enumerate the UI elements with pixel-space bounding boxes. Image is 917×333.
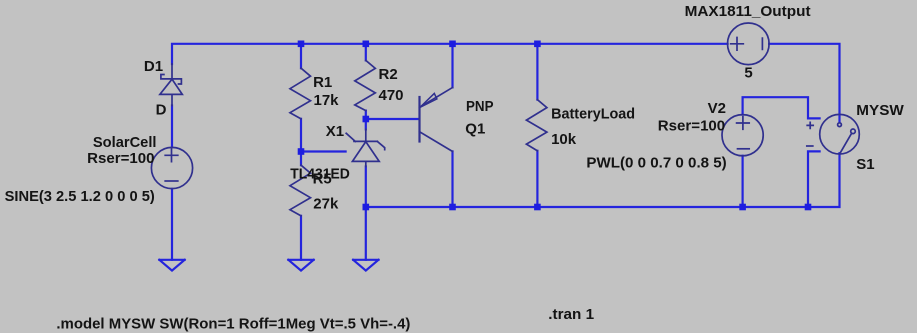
svg-text:Rser=100: Rser=100 xyxy=(87,150,154,167)
svg-text:V2: V2 xyxy=(708,100,726,117)
svg-text:BatteryLoad: BatteryLoad xyxy=(551,106,635,123)
svg-text:X1: X1 xyxy=(326,123,344,140)
svg-text:SINE(3 2.5 1.2 0 0 0 5): SINE(3 2.5 1.2 0 0 0 5) xyxy=(5,188,155,205)
svg-text:Q1: Q1 xyxy=(465,121,485,138)
svg-text:5: 5 xyxy=(744,64,752,81)
svg-text:Rser=100: Rser=100 xyxy=(658,117,725,134)
svg-text:.tran 1: .tran 1 xyxy=(548,306,594,323)
svg-text:PNP: PNP xyxy=(466,98,494,115)
svg-text:MAX1811_Output: MAX1811_Output xyxy=(685,3,811,20)
svg-text:D1: D1 xyxy=(144,58,163,75)
svg-text:PWL(0 0 0.7 0 0.8 5): PWL(0 0 0.7 0 0.8 5) xyxy=(586,154,726,171)
svg-text:.model MYSW SW(Ron=1 Roff=1Meg: .model MYSW SW(Ron=1 Roff=1Meg Vt=.5 Vh=… xyxy=(56,315,410,332)
svg-text:17k: 17k xyxy=(314,92,340,109)
svg-text:D: D xyxy=(156,102,167,119)
svg-text:470: 470 xyxy=(379,87,404,104)
svg-text:R2: R2 xyxy=(379,66,398,83)
svg-text:SolarCell: SolarCell xyxy=(93,134,157,151)
svg-text:10k: 10k xyxy=(551,131,577,148)
svg-text:MYSW: MYSW xyxy=(856,102,904,119)
svg-text:S1: S1 xyxy=(856,156,874,173)
svg-text:27k: 27k xyxy=(313,196,339,213)
svg-text:R1: R1 xyxy=(313,74,332,91)
svg-text:R5: R5 xyxy=(313,171,332,188)
